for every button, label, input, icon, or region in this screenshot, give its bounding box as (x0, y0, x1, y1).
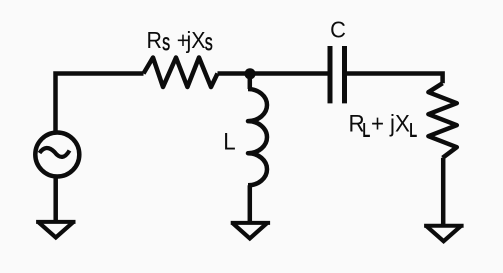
svg-text:jX: jX (389, 110, 410, 137)
svg-text:L: L (223, 128, 236, 155)
svg-text:C: C (330, 16, 346, 43)
svg-text:jX: jX (186, 27, 206, 53)
svg-text:L: L (362, 119, 370, 142)
svg-text:R: R (147, 27, 162, 53)
svg-text:S: S (205, 34, 213, 55)
svg-text:+: + (371, 110, 384, 137)
svg-text:L: L (409, 119, 417, 142)
svg-text:S: S (162, 34, 170, 55)
